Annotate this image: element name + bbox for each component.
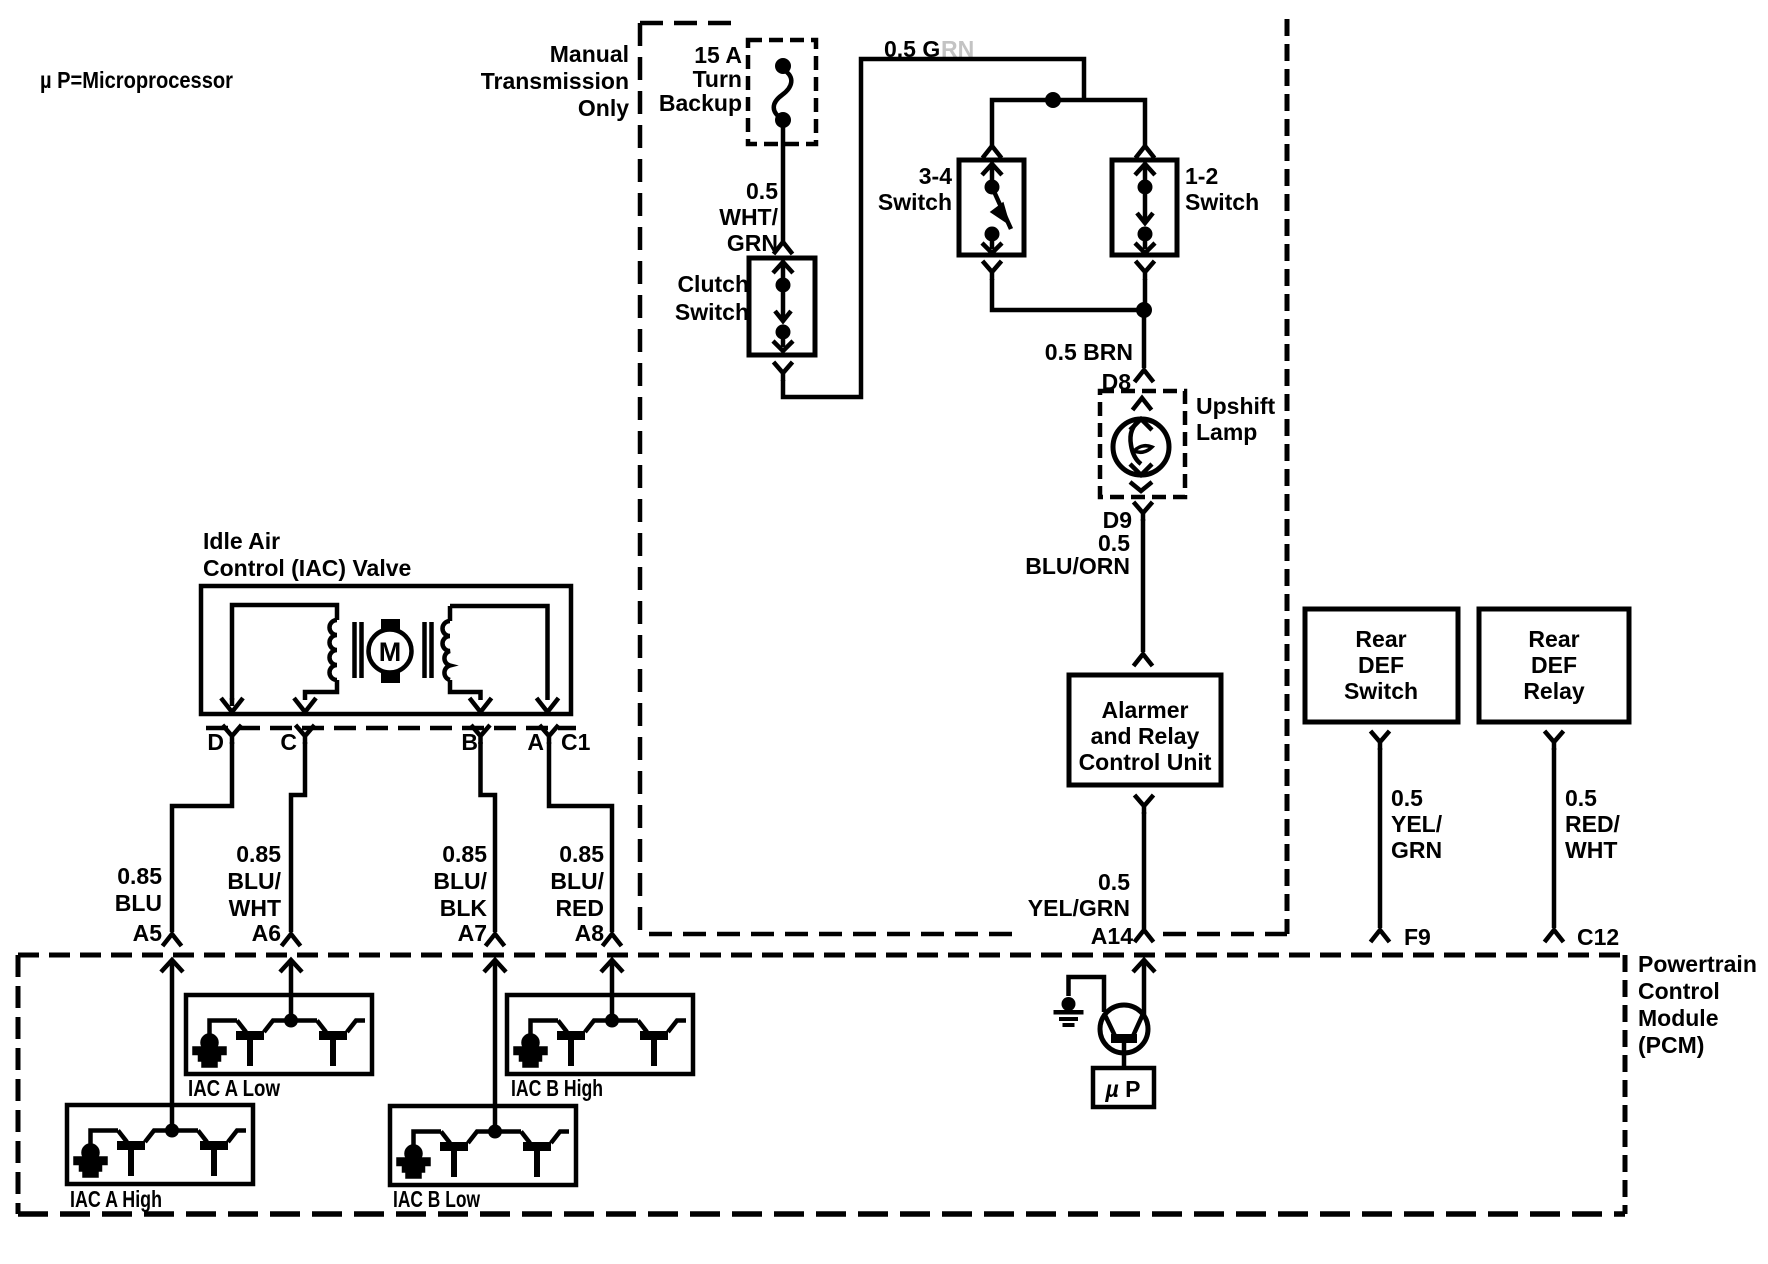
svg-text:Clutch: Clutch bbox=[677, 271, 749, 297]
svg-text:1-2: 1-2 bbox=[1185, 163, 1218, 189]
PCM dashed box bbox=[18, 953, 1625, 958]
wire: fuse to clutch switch bbox=[781, 126, 786, 242]
wire: Alarmer unit to A14 bbox=[1135, 795, 1154, 814]
dashed connector line at IAC pins bbox=[206, 726, 576, 731]
wire: feed split to 3-4 and 1-2 switches bbox=[992, 100, 1145, 146]
svg-text:A5: A5 bbox=[133, 920, 163, 946]
wire: pin C to A6 bbox=[291, 742, 305, 932]
PCM entry arrow A6 bbox=[280, 960, 302, 972]
core bars left bbox=[355, 622, 362, 678]
PCM entry arrow A7 bbox=[484, 960, 506, 972]
svg-text:Switch: Switch bbox=[1185, 189, 1259, 215]
svg-text:0.5: 0.5 bbox=[1098, 869, 1130, 895]
svg-text:DEF: DEF bbox=[1531, 652, 1577, 678]
svg-text:BLU/ORN: BLU/ORN bbox=[1025, 553, 1130, 579]
dashed region boundary: Manual Transmission Only (left) bbox=[638, 23, 643, 931]
core bars right bbox=[425, 622, 432, 678]
svg-text:Only: Only bbox=[578, 95, 629, 121]
svg-text:A6: A6 bbox=[252, 920, 281, 946]
svg-text:F9: F9 bbox=[1404, 924, 1431, 950]
switch: Clutch Switch bbox=[749, 258, 815, 355]
svg-text:Manual: Manual bbox=[550, 41, 629, 67]
transistor Q (PCM output) bbox=[1100, 960, 1148, 1068]
pin arrows (down) bbox=[221, 698, 243, 712]
svg-text:BLU/: BLU/ bbox=[550, 868, 604, 894]
svg-text:IAC A High: IAC A High bbox=[70, 1186, 162, 1212]
svg-text:IAC B Low: IAC B Low bbox=[393, 1186, 480, 1212]
svg-text:0.5: 0.5 bbox=[1565, 785, 1597, 811]
junction dot bbox=[1045, 92, 1061, 108]
svg-text:Upshift: Upshift bbox=[1196, 393, 1276, 419]
svg-text:0.5: 0.5 bbox=[746, 178, 778, 204]
svg-text:0.85: 0.85 bbox=[559, 841, 604, 867]
wire: D9 to Alarmer unit bbox=[1141, 519, 1146, 652]
coil B bbox=[443, 621, 450, 680]
svg-text:YEL/: YEL/ bbox=[1391, 811, 1443, 837]
wire: clutch switch to top feed bbox=[774, 362, 793, 381]
svg-text:BLU/: BLU/ bbox=[227, 868, 281, 894]
wire: Rear DEF Relay to C12 bbox=[1545, 731, 1564, 750]
svg-text:µ P=Microprocessor: µ P=Microprocessor bbox=[40, 67, 233, 93]
svg-text:Powertrain: Powertrain bbox=[1638, 951, 1757, 977]
svg-text:A: A bbox=[527, 729, 544, 755]
svg-text:GRN: GRN bbox=[727, 230, 778, 256]
svg-text:BLU/: BLU/ bbox=[433, 868, 487, 894]
box: microprocessor uP bbox=[1093, 1068, 1154, 1107]
svg-text:15 A: 15 A bbox=[694, 42, 742, 68]
driver: IAC A High bbox=[67, 1105, 253, 1184]
svg-text:BLK: BLK bbox=[440, 895, 488, 921]
wire: pin D to A5 bbox=[172, 742, 232, 932]
motor M bbox=[381, 619, 400, 631]
left winding loop wire bbox=[232, 605, 337, 700]
PCM entry arrow A5 bbox=[161, 960, 183, 972]
svg-text:D: D bbox=[207, 729, 224, 755]
svg-text:and Relay: and Relay bbox=[1091, 723, 1200, 749]
fuse: 15A Turn Backup (dashed box) bbox=[748, 40, 816, 144]
svg-text:0.85: 0.85 bbox=[236, 841, 281, 867]
svg-text:Rear: Rear bbox=[1528, 626, 1579, 652]
svg-text:Backup: Backup bbox=[659, 90, 742, 116]
svg-text:Switch: Switch bbox=[878, 189, 952, 215]
svg-text:0.5 BRN: 0.5 BRN bbox=[1045, 339, 1133, 365]
svg-text:WHT: WHT bbox=[229, 895, 281, 921]
svg-text:0.85: 0.85 bbox=[442, 841, 487, 867]
svg-text:Relay: Relay bbox=[1523, 678, 1585, 704]
svg-text:DEF: DEF bbox=[1358, 652, 1404, 678]
svg-text:A8: A8 bbox=[575, 920, 605, 946]
ground (transistor emitter) bbox=[1054, 977, 1105, 1027]
svg-text:3-4: 3-4 bbox=[919, 163, 952, 189]
IAC valve assembly bbox=[201, 586, 571, 714]
driver: IAC B Low bbox=[390, 1106, 576, 1185]
svg-text:Control Unit: Control Unit bbox=[1079, 749, 1212, 775]
box: Rear DEF Relay bbox=[1479, 609, 1629, 722]
svg-text:Control: Control bbox=[1638, 978, 1720, 1004]
junction dot bbox=[1136, 302, 1152, 318]
switch: 3-4 Switch bbox=[959, 146, 1024, 280]
svg-text:Turn: Turn bbox=[693, 66, 742, 92]
svg-text:0.85: 0.85 bbox=[117, 863, 162, 889]
wire: pin B to A7 bbox=[481, 742, 496, 932]
svg-text:YEL/GRN: YEL/GRN bbox=[1028, 895, 1130, 921]
svg-text:C12: C12 bbox=[1577, 924, 1619, 950]
dashed region boundary: Manual Transmission Only (bottom) bbox=[649, 932, 1287, 937]
svg-text:Module: Module bbox=[1638, 1005, 1719, 1031]
driver: IAC B High bbox=[507, 995, 693, 1074]
wire: switches merge to D8 bbox=[992, 279, 1145, 368]
box: Rear DEF Switch bbox=[1305, 609, 1458, 722]
wire: Rear DEF Switch to F9 bbox=[1371, 731, 1390, 750]
svg-text:IAC A Low: IAC A Low bbox=[188, 1075, 280, 1101]
svg-text:WHT: WHT bbox=[1565, 837, 1617, 863]
driver: IAC A Low bbox=[186, 995, 372, 1074]
outer box bbox=[201, 586, 571, 714]
svg-text:Idle Air: Idle Air bbox=[203, 528, 280, 554]
PCM entry arrow A14 bbox=[1133, 960, 1155, 972]
box: Alarmer and Relay Control Unit bbox=[1069, 675, 1221, 785]
coil A bbox=[330, 620, 338, 680]
PCM entry arrow A8 bbox=[601, 960, 623, 972]
lamp: Upshift Lamp (dashed box) bbox=[1100, 391, 1185, 497]
svg-text:M: M bbox=[379, 637, 402, 667]
dashed region boundary: Manual Transmission Only (top) bbox=[640, 21, 741, 26]
svg-text:µ P: µ P bbox=[1105, 1076, 1141, 1102]
svg-text:Alarmer: Alarmer bbox=[1102, 697, 1189, 723]
svg-text:(PCM): (PCM) bbox=[1638, 1032, 1704, 1058]
svg-text:Switch: Switch bbox=[675, 299, 749, 325]
svg-text:A14: A14 bbox=[1091, 923, 1133, 949]
switch: 1-2 Switch bbox=[1112, 146, 1177, 280]
svg-text:WHT/: WHT/ bbox=[719, 204, 778, 230]
wire: pin A to A8 bbox=[549, 742, 612, 932]
svg-text:RED: RED bbox=[555, 895, 604, 921]
svg-text:Transmission: Transmission bbox=[481, 68, 629, 94]
wire: A8 into IAC B High bbox=[610, 960, 615, 1020]
svg-text:C: C bbox=[280, 729, 297, 755]
svg-text:Switch: Switch bbox=[1344, 678, 1418, 704]
wire: A7 into IAC B Low bbox=[493, 960, 498, 1131]
svg-text:0.5: 0.5 bbox=[1391, 785, 1423, 811]
right winding loop wire bbox=[450, 606, 548, 700]
svg-text:Control (IAC) Valve: Control (IAC) Valve bbox=[203, 555, 411, 581]
svg-text:BLU: BLU bbox=[115, 890, 162, 916]
wire: A6 into IAC A Low bbox=[289, 960, 294, 1020]
wire: A5 into IAC A High bbox=[170, 960, 175, 1130]
svg-text:C1: C1 bbox=[561, 729, 591, 755]
svg-text:IAC B High: IAC B High bbox=[511, 1075, 603, 1101]
svg-text:Rear: Rear bbox=[1355, 626, 1406, 652]
dashed region boundary: Manual Transmission Only (right) bbox=[1285, 19, 1290, 934]
svg-text:Lamp: Lamp bbox=[1196, 419, 1257, 445]
svg-text:RED/: RED/ bbox=[1565, 811, 1621, 837]
svg-text:A7: A7 bbox=[458, 920, 487, 946]
svg-text:GRN: GRN bbox=[1391, 837, 1442, 863]
